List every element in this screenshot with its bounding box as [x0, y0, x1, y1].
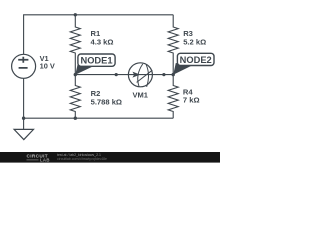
- ground: [14, 118, 33, 139]
- watermark bar: [0, 152, 220, 163]
- svg-text:VM1: VM1: [132, 90, 147, 99]
- svg-text:10 V: 10 V: [40, 62, 55, 71]
- wire bottom run: [24, 117, 174, 119]
- node label NODE1: [75, 54, 115, 75]
- resistor R3: [168, 15, 178, 75]
- resistor R4: [168, 75, 178, 119]
- svg-text:LAB: LAB: [40, 158, 50, 163]
- wire V1 bottom to ground corner: [23, 78, 25, 118]
- wire middle run NODE1 to NODE2: [75, 74, 173, 76]
- wire top run: V1 top to R3 top: [24, 15, 174, 55]
- svg-text:5.788 kΩ: 5.788 kΩ: [91, 98, 122, 107]
- resistor R1: [70, 15, 80, 75]
- voltmeter VM1: [128, 63, 152, 87]
- svg-text:NODE1: NODE1: [80, 55, 112, 65]
- junction dot R2 bottom: [74, 117, 77, 120]
- svg-text:NODE2: NODE2: [180, 55, 212, 65]
- svg-text:circuitlab.com/c/hswtyvqfdxv48: circuitlab.com/c/hswtyvqfdxv48e: [57, 157, 107, 161]
- node NODE2 junction dot: [172, 73, 175, 76]
- voltage source V1: [12, 54, 36, 78]
- resistor R2: [70, 75, 80, 119]
- svg-text:7 kΩ: 7 kΩ: [183, 95, 200, 104]
- junction dot R1 top: [74, 13, 77, 16]
- junction dot ground: [22, 117, 25, 120]
- svg-text:5.2 kΩ: 5.2 kΩ: [183, 37, 206, 46]
- VM1 left terminal dot: [115, 73, 118, 76]
- node NODE1 junction dot: [74, 73, 77, 76]
- node label NODE2: [173, 53, 214, 75]
- svg-text:4.3 kΩ: 4.3 kΩ: [91, 37, 114, 46]
- VM1 right terminal dot: [162, 73, 165, 76]
